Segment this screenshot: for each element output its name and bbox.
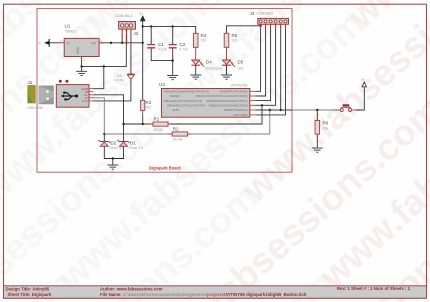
node R2 riser joins row5	[269, 109, 271, 111]
wire: J3 pin3 to IC row3	[256, 24, 271, 100]
ground: under C2	[167, 76, 178, 80]
pin labels	[81, 87, 89, 103]
svg-text:PB4(ADC2/XTAL2/PCINT4): PB4(ADC2/XTAL2/PCINT4)	[167, 103, 205, 107]
wire: R1 line	[124, 105, 263, 124]
voltage regulator U1	[59, 24, 105, 63]
svg-text:J3: J3	[250, 11, 255, 16]
wire: R4 bottom to D4	[195, 47, 197, 60]
svg-text:68 0R: 68 0R	[173, 138, 183, 142]
input arrow (left)	[44, 41, 49, 45]
svg-text:R2: R2	[173, 126, 179, 131]
svg-text:2: 2	[84, 58, 86, 62]
node R3 bottom	[142, 123, 144, 125]
wire: D1 lead down	[123, 124, 125, 141]
mount pins	[59, 80, 62, 83]
svg-text:330: 330	[201, 39, 207, 43]
svg-text:R6: R6	[323, 121, 329, 126]
svg-text:LED(green): LED(green)	[205, 66, 222, 70]
resistor R1	[150, 117, 172, 132]
svg-text:3: 3	[130, 31, 132, 35]
resistor R5	[224, 33, 238, 47]
node J3 p5 on row5	[280, 109, 282, 111]
svg-text:VI: VI	[67, 41, 70, 45]
svg-text:78M05: 78M05	[65, 30, 76, 34]
svg-text:R3: R3	[145, 100, 151, 105]
svg-text:R5: R5	[232, 33, 238, 38]
svg-text:DIODE: DIODE	[115, 78, 125, 82]
svg-text:Author: www.fabsessions.com: Author: www.fabsessions.com	[100, 287, 163, 292]
svg-text:VCC/GND: VCC/GND	[233, 113, 248, 117]
wire: U1 input to left arrow	[49, 42, 59, 44]
svg-text:CON-SIL3: CON-SIL3	[116, 14, 133, 18]
ground: under D5	[221, 75, 232, 79]
power arrow 5V (top middle)	[140, 16, 145, 21]
svg-text:2: 2	[126, 31, 128, 35]
wire: J3 pin5 to IC row5	[256, 24, 281, 110]
wire: usb D- to R2 line (gray)	[94, 98, 173, 134]
svg-text:J1: J1	[28, 80, 33, 85]
svg-text:U2: U2	[159, 82, 165, 87]
connector J3 CON-SIL6	[250, 11, 289, 29]
resistor R3	[141, 100, 152, 111]
node J2 pin1 junction	[121, 42, 123, 44]
svg-text:PB2(SCK/USCK/SCL/ADC1/PCINT2): PB2(SCK/USCK/SCL/ADC1/PCINT2)	[196, 94, 248, 98]
node C bottom	[172, 59, 174, 61]
ground: under zeners	[107, 159, 118, 170]
svg-text:1k5: 1k5	[145, 106, 151, 110]
pushbutton switch	[335, 104, 356, 111]
svg-text:330: 330	[232, 39, 238, 43]
wire: C1/C2 bottoms to ground	[151, 48, 173, 75]
resistor R6	[315, 121, 329, 135]
IC U2 ATTINY85	[159, 82, 256, 117]
svg-text:D2: D2	[111, 141, 117, 146]
svg-text:R1: R1	[154, 117, 160, 122]
svg-text:GND: GND	[76, 46, 80, 54]
wire: pushbutton right to 5V arrow	[355, 87, 364, 110]
svg-text:1: 1	[121, 31, 123, 35]
wire: J3 pin4 to IC row4	[256, 24, 276, 105]
node zener gnd	[112, 157, 114, 159]
wire: zener gnd rail	[104, 146, 123, 158]
node: U1 out	[142, 42, 144, 44]
node C1 top	[150, 25, 152, 27]
diode D3	[115, 74, 135, 82]
capacitor C1	[147, 42, 167, 52]
svg-text:5V: 5V	[361, 78, 365, 82]
wire: row5 to pushbutton (reset line)	[256, 109, 293, 111]
svg-text:Digispark Board: Digispark Board	[149, 165, 181, 170]
wire: D3 bottom to usb VCC pin	[94, 79, 131, 101]
title bar	[4, 286, 427, 298]
zener D1	[117, 140, 143, 150]
svg-text:R4: R4	[201, 33, 207, 38]
svg-text:Design Title: Attiny85: Design Title: Attiny85	[6, 287, 50, 292]
olive plug body	[28, 86, 36, 104]
svg-text:Zener 3.6: Zener 3.6	[129, 146, 143, 150]
wire: R5 top to J3 pin1	[227, 26, 261, 34]
svg-text:PB5(ADC0/dW/RESET/PCINT5): PB5(ADC0/dW/RESET/PCINT5)	[164, 90, 209, 94]
svg-text:5V: 5V	[38, 41, 42, 45]
connector J2 CON-SIL3	[116, 14, 139, 45]
usb trident icon	[63, 93, 77, 100]
svg-text:Sheet Title: Digispark: Sheet Title: Digispark	[8, 292, 52, 297]
resistor R2	[169, 126, 191, 141]
wire: J3 pin1 to IC row1	[256, 24, 261, 91]
wire: C1 vertical	[150, 26, 152, 44]
ground: under D4	[190, 75, 201, 79]
IC right pin stubs	[250, 91, 256, 115]
wire: J3 pin2 to IC row2	[256, 24, 266, 96]
svg-text:PB0(MOSI/DI/SDA/PCINT0): PB0(MOSI/DI/SDA/PCINT0)	[209, 103, 248, 107]
svg-text:VO: VO	[91, 41, 96, 45]
ground: under R6	[312, 148, 323, 152]
svg-text:File Name: C:\Users\electronic: File Name: C:\Users\electronicssessions\…	[100, 292, 307, 297]
node D1 top junction	[122, 123, 124, 125]
metal shell	[39, 86, 54, 104]
svg-text:PB3(ADC3/XTAL1/PCINT3): PB3(ADC3/XTAL1/PCINT3)	[164, 99, 202, 103]
svg-text:0.1uF: 0.1uF	[158, 48, 167, 52]
wire: usb GND pin up to gnd rail	[94, 66, 104, 88]
svg-text:C1: C1	[158, 42, 164, 47]
wire: R2 to riser (gray)	[188, 110, 270, 134]
wire: R3 bottom stub	[142, 110, 144, 115]
svg-text:U1: U1	[65, 24, 71, 29]
wire: usb D+ to R1 line (black)	[94, 95, 124, 124]
wire: D5 to ground	[226, 65, 228, 74]
node R6 top	[316, 109, 318, 111]
svg-text:D1: D1	[130, 141, 136, 146]
svg-text:J2: J2	[134, 31, 139, 36]
usb connector J1	[28, 80, 94, 110]
svg-text:LED: LED	[237, 66, 244, 70]
svg-text:Rev: 1 Sheet # : 1 Num: Rev: 1 Sheet # : 1 Num of Sheets : 1	[337, 286, 411, 291]
svg-text:ATTINY85: ATTINY85	[231, 84, 248, 88]
wire: R5 bottom to D5	[226, 47, 228, 60]
capacitor C2	[169, 42, 189, 52]
wire: 5V arrow vertical down to R3 top	[142, 21, 144, 101]
wire: R6 leads	[316, 110, 318, 148]
svg-text:10k: 10k	[323, 126, 329, 130]
wire: U1 gnd down + gnd rail to J2 pin2	[82, 29, 127, 66]
svg-text:5V: 5V	[140, 12, 144, 16]
svg-text:PB1(MISO/DO/AIN1/PCINT1): PB1(MISO/DO/AIN1/PCINT1)	[207, 99, 248, 103]
wire: U1 out to 5V vertical	[99, 42, 143, 44]
svg-text:C2: C2	[180, 42, 186, 47]
schematic inner frame	[37, 9, 292, 173]
svg-text:GND: GND	[172, 108, 180, 112]
svg-text:USB-MINI: USB-MINI	[28, 106, 44, 110]
symbol box	[56, 85, 89, 108]
node C2 top	[172, 25, 174, 27]
svg-text:PB5(INT0/ADC0): PB5(INT0/ADC0)	[224, 108, 248, 112]
zener D2	[98, 140, 124, 150]
LED D5	[222, 60, 244, 71]
svg-text:D5: D5	[238, 60, 244, 65]
node J3 pin1 / R5	[259, 25, 261, 27]
svg-text:(AREF/PCINT0)PB0: (AREF/PCINT0)PB0	[219, 90, 247, 94]
ground: under U1	[76, 66, 87, 75]
LED D4	[191, 60, 222, 71]
wire: C2 vertical	[172, 26, 174, 44]
node U1 gnd	[80, 65, 82, 67]
node D2 top junction	[103, 133, 105, 135]
svg-text:VCC: VCC	[82, 99, 89, 103]
wire: D4 to ground	[195, 65, 197, 74]
wire: J3 pin6 to IC row6	[256, 24, 286, 115]
wire: J2 pin3 down to D3	[130, 29, 132, 74]
resistor R4	[193, 33, 206, 47]
wire: J2 pin1 down	[121, 29, 123, 43]
node: rail branch	[142, 25, 144, 27]
node R1 to IC row4	[261, 104, 263, 106]
pin stubs	[89, 89, 94, 101]
svg-text:RESET: RESET	[170, 94, 180, 98]
svg-text:4.7uF: 4.7uF	[180, 48, 189, 52]
node usb gnd branch	[103, 65, 105, 67]
power arrow 5V (right)	[362, 82, 366, 87]
svg-text:CON-SIL6: CON-SIL6	[257, 12, 274, 16]
wire: D2 lead down	[103, 134, 105, 141]
wire: +5V rail to R4	[143, 26, 196, 33]
svg-text:68 0R: 68 0R	[154, 128, 164, 132]
svg-text:D4: D4	[206, 60, 212, 65]
node on 5V out line	[110, 42, 112, 44]
